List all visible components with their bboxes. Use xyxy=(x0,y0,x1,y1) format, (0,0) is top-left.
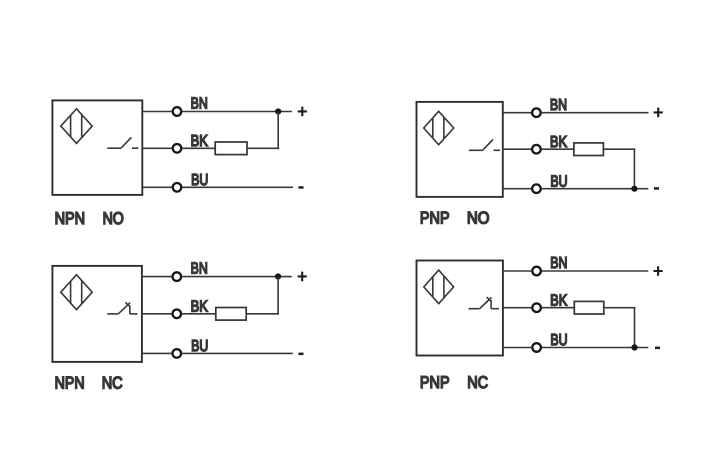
wire BN to plus xyxy=(182,111,292,113)
svg-text:BN: BN xyxy=(191,261,208,278)
junction dot BU node PNP-NC xyxy=(631,344,637,350)
svg-text:BU: BU xyxy=(550,173,567,190)
svg-text:NO: NO xyxy=(103,209,124,228)
wire resistor to riser xyxy=(247,147,279,149)
wire riser to BN node xyxy=(277,112,279,149)
terminal circle BU PNP-NO xyxy=(532,184,541,193)
terminal circle BK PNP-NO xyxy=(532,145,541,154)
minus terminal PNP-NO xyxy=(654,187,659,190)
plus terminal PNP-NO xyxy=(654,108,663,118)
wire BN to plus PNP-NO xyxy=(542,112,649,114)
terminal circle BK PNP-NC xyxy=(532,303,541,312)
wire BK to resistor PNP-NC xyxy=(542,307,574,309)
svg-text:NPN: NPN xyxy=(55,209,86,228)
wire BK from body xyxy=(142,147,171,149)
terminal circle BN PNP-NO xyxy=(532,108,541,117)
wire resistor to dropper PNP-NO xyxy=(603,148,635,150)
svg-text:NC: NC xyxy=(102,374,123,393)
svg-text:NC: NC xyxy=(467,373,488,392)
wire BU from body PNP-NC xyxy=(503,347,531,349)
wire BN from body NPN-NC xyxy=(142,276,172,278)
wire BK from body PNP-NC xyxy=(503,307,531,309)
diamond inner right line NPN NO xyxy=(81,115,83,138)
svg-text:BN: BN xyxy=(191,96,208,113)
junction dot BN node NPN-NO xyxy=(275,108,281,114)
load resistor R NPN-NO xyxy=(215,142,247,155)
svg-text:PNP: PNP xyxy=(420,373,450,392)
terminal circle BU NPN-NO xyxy=(173,183,182,192)
wire BK from body PNP-NO xyxy=(503,148,531,150)
minus terminal PNP-NC xyxy=(655,347,660,350)
switch left lead xyxy=(107,147,121,149)
svg-text:BN: BN xyxy=(550,97,567,114)
sensor body NPN NC xyxy=(52,266,141,362)
switch lever cross tick xyxy=(125,302,130,306)
minus terminal NPN-NC xyxy=(299,353,304,356)
wire dropper to BU node PNP-NO xyxy=(633,149,635,189)
junction dot BN node NPN-NC xyxy=(275,273,281,279)
terminal circle BN NPN-NO xyxy=(173,107,182,116)
switch right contact dash xyxy=(494,149,500,151)
diamond inner right line PNP NC xyxy=(443,276,445,298)
wire BN from body PNP-NO xyxy=(503,112,531,114)
plus terminal PNP-NC xyxy=(654,266,663,276)
wire BU to minus NPN-NC xyxy=(182,352,293,354)
switch lever (closed) xyxy=(480,298,492,309)
sensor symbol diamond NPN NO xyxy=(61,109,92,144)
wire BU to minus xyxy=(182,186,293,188)
sensor body PNP NC xyxy=(417,261,503,356)
wire BK to resistor NPN-NC xyxy=(182,313,216,315)
switch left lead xyxy=(469,149,483,151)
load resistor R NPN-NC xyxy=(216,308,246,321)
diamond inner left line PNP NC xyxy=(432,277,434,297)
load resistor R PNP-NC xyxy=(574,301,604,314)
wire BU to minus PNP-NO xyxy=(542,188,649,190)
diamond inner left line NPN NC xyxy=(70,281,72,303)
wire BU from body NPN-NC xyxy=(142,352,172,354)
wire BN from body xyxy=(142,111,171,113)
switch right riser xyxy=(490,300,492,309)
terminal circle BK NPN-NC xyxy=(173,310,182,319)
svg-text:BU: BU xyxy=(550,332,567,349)
svg-text:BU: BU xyxy=(191,172,208,189)
load resistor R PNP-NO xyxy=(574,143,604,156)
terminal circle BU NPN-NC xyxy=(173,349,182,358)
terminal circle BK NPN-NO xyxy=(173,144,182,153)
sensor symbol diamond NPN NC xyxy=(61,275,92,310)
svg-text:PNP: PNP xyxy=(420,209,450,228)
wire BN to plus NPN-NC xyxy=(182,276,292,278)
wire BK to resistor xyxy=(182,147,215,149)
wire BU from body PNP-NO xyxy=(503,188,531,190)
wire BN from body PNP-NC xyxy=(503,270,531,272)
diamond inner right line PNP NO xyxy=(443,117,445,139)
sensor body PNP NO xyxy=(417,102,503,197)
minus terminal NPN-NO xyxy=(299,186,304,189)
sensor symbol diamond PNP NO xyxy=(424,111,454,144)
diamond inner left line PNP NO xyxy=(432,118,434,138)
wire BK from body NPN-NC xyxy=(142,313,172,315)
wire BN to plus PNP-NC xyxy=(542,270,648,272)
plus terminal NPN-NO xyxy=(298,107,307,117)
diamond inner left line NPN NO xyxy=(70,115,72,137)
svg-text:BU: BU xyxy=(191,338,208,355)
plus terminal NPN-NC xyxy=(298,272,307,282)
switch lever (open) xyxy=(121,137,131,148)
wire dropper to BU node PNP-NC xyxy=(634,308,636,348)
switch left lead xyxy=(469,308,480,310)
wire BK to resistor PNP-NO xyxy=(542,148,574,150)
switch lever (open) xyxy=(483,139,493,150)
diamond inner right line NPN NC xyxy=(81,281,83,304)
terminal circle BN PNP-NC xyxy=(532,267,541,276)
wire resistor to dropper PNP-NC xyxy=(604,307,636,309)
switch left lead xyxy=(107,313,118,315)
terminal circle BN NPN-NC xyxy=(173,272,182,281)
wire BU to minus PNP-NC xyxy=(542,347,648,349)
switch right lead xyxy=(130,313,138,315)
sensor symbol diamond PNP NC xyxy=(424,270,454,304)
switch right lead xyxy=(491,308,499,310)
switch lever cross tick xyxy=(487,297,492,301)
svg-text:NPN: NPN xyxy=(55,374,85,393)
switch right riser xyxy=(129,305,131,314)
wire riser to BN node NPN-NC xyxy=(277,277,279,314)
svg-text:BN: BN xyxy=(550,255,567,272)
sensor body NPN NO xyxy=(52,100,142,194)
junction dot BU node PNP-NO xyxy=(631,186,637,192)
wire BU from body xyxy=(142,186,171,188)
switch lever (closed) xyxy=(118,303,130,314)
switch right contact dash xyxy=(132,147,138,149)
svg-text:NO: NO xyxy=(467,209,490,228)
wire resistor to riser NPN-NC xyxy=(246,313,279,315)
terminal circle BU PNP-NC xyxy=(532,343,541,352)
